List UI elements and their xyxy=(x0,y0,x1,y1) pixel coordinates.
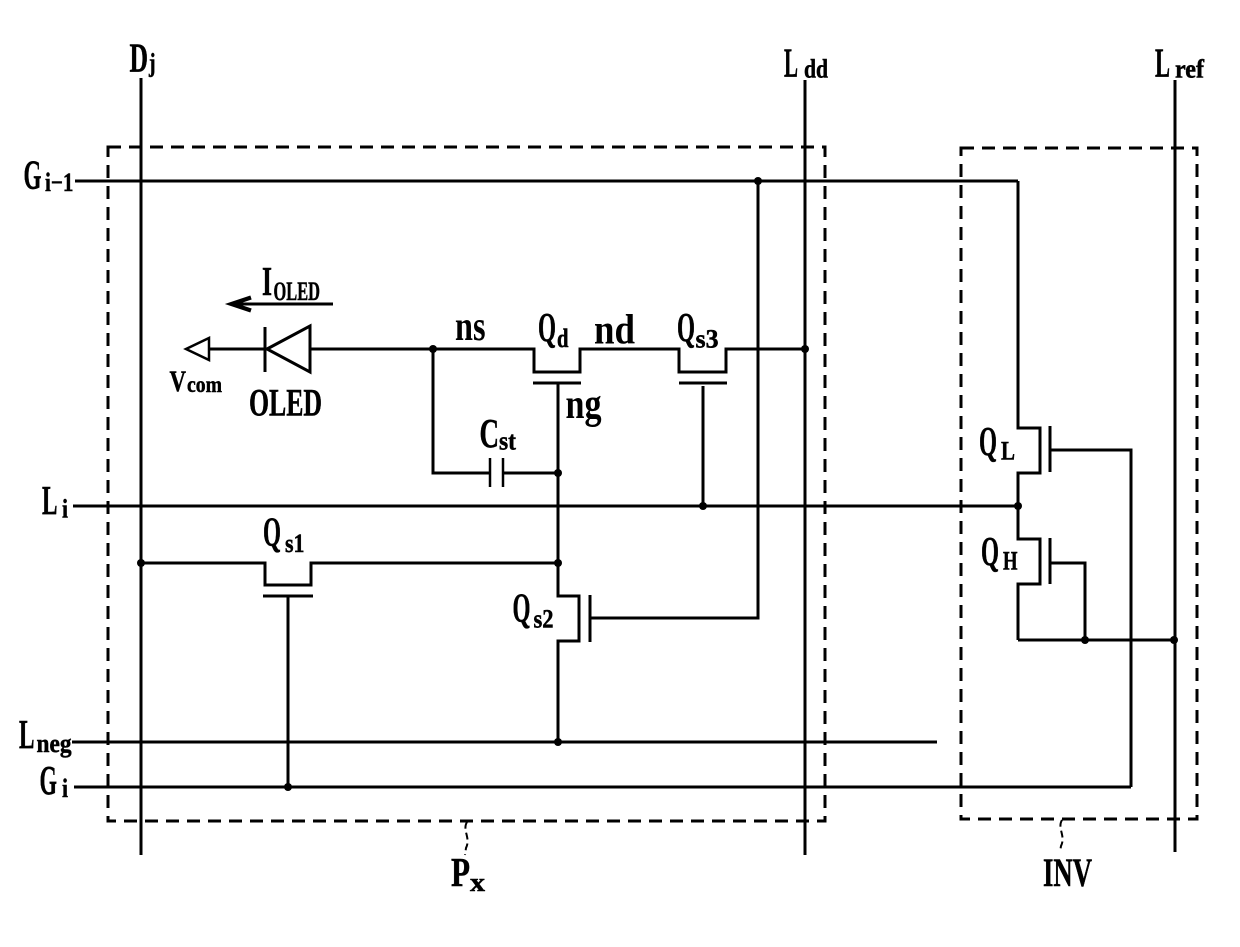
transistor Qs2 gate bar xyxy=(589,595,592,642)
leader squiggle to INV label xyxy=(1060,820,1063,852)
wire G_i horizontal scan line xyxy=(74,786,1131,789)
junction dot Qs1 gate at G_i xyxy=(284,783,292,791)
wire QH gate stem to its source xyxy=(1050,563,1085,640)
wire QH channel from L_i down xyxy=(1018,506,1040,640)
svg-text:nd: nd xyxy=(594,308,635,354)
transistor Qs1 gate bar xyxy=(263,595,313,598)
transistor Qd gate bar xyxy=(533,382,581,385)
wire L_ref vertical reference line xyxy=(1174,80,1177,852)
wire node ng line through Qs2 channel down to L_neg xyxy=(558,384,579,742)
junction dot node ng at L_neg xyxy=(554,738,562,746)
junction dot Qs3 gate at L_i xyxy=(699,502,707,510)
wire D_j vertical data line xyxy=(140,78,143,855)
wire L_dd vertical supply line xyxy=(804,80,807,855)
wire Qs1 row from D_j with channel dip xyxy=(141,563,558,585)
arrow I_OLED current direction xyxy=(231,298,333,311)
transistor QH gate bar xyxy=(1049,538,1052,584)
leader squiggle to Px label xyxy=(465,822,468,855)
wire L_i horizontal line xyxy=(73,505,1018,508)
node ns vertical drop to capacitor xyxy=(433,349,489,473)
wire Qs2 gate stem to G_i-1 xyxy=(590,181,758,618)
dashed box INV inverter boundary xyxy=(961,148,1197,819)
svg-text:INV: INV xyxy=(1043,850,1092,895)
junction dot G_i-1 and Qs2 gate line xyxy=(754,177,762,185)
transistor Qs3 gate bar xyxy=(679,382,727,385)
wire Qs3 gate stem to L_i xyxy=(702,386,705,506)
wire QH source row to L_ref xyxy=(1018,639,1175,642)
svg-text:ng: ng xyxy=(566,382,602,428)
wire capacitor right plate to node ng xyxy=(504,472,558,475)
wire QL gate stem to G_i xyxy=(1050,450,1131,787)
wire Vcom lead to OLED cathode xyxy=(209,348,265,351)
junction dot Qs3 drain at L_dd xyxy=(801,345,809,353)
dashed box Px pixel boundary xyxy=(108,147,825,821)
svg-text:ns: ns xyxy=(455,304,486,350)
transistor QL gate bar xyxy=(1049,426,1052,472)
terminal Vcom open arrowhead xyxy=(186,338,209,360)
wire L_neg horizontal line xyxy=(72,741,937,744)
junction dot QH gate at source wire xyxy=(1081,636,1089,644)
diode OLED anode triangle xyxy=(267,326,310,372)
capacitor C_st right plate xyxy=(502,458,505,487)
capacitor C_st left plate xyxy=(489,458,492,487)
junction node ns xyxy=(429,345,437,353)
wire Qs1 gate stem to G_i xyxy=(287,597,290,787)
wire QL drain from G_i-1 through channel to L_i xyxy=(1018,181,1040,506)
junction dot L_i at inverter input xyxy=(1014,502,1022,510)
junction dot QH source wire at L_ref xyxy=(1170,636,1178,644)
junction dot Qs1 row at node ng xyxy=(554,559,562,567)
svg-text:OLED: OLED xyxy=(249,382,322,425)
junction dot D_j at Qs1 row xyxy=(137,559,145,567)
wire G_i-1 horizontal scan line xyxy=(75,180,1018,183)
diode OLED cathode bar xyxy=(264,327,267,372)
wire OLED branch with Qd and Qs3 channels to L_dd xyxy=(310,349,805,372)
junction dot C_st at node ng xyxy=(554,469,562,477)
